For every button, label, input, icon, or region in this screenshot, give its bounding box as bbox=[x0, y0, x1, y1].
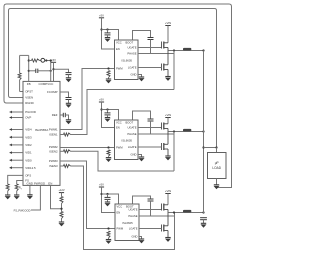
wire bbox=[150, 121, 152, 134]
svg-text:FCOMP: FCOMP bbox=[47, 90, 58, 94]
svg-text:PWM: PWM bbox=[116, 146, 123, 150]
svg-text:FB: FB bbox=[27, 82, 31, 86]
ground bbox=[66, 119, 71, 121]
svg-text:VSEN: VSEN bbox=[25, 96, 33, 100]
wire +5V feed / EN tie driver 3 bbox=[102, 187, 116, 213]
wire LGATE driver 3 bbox=[139, 228, 162, 230]
svg-text:LGATE: LGATE bbox=[129, 227, 138, 231]
svg-text:VID12.5: VID12.5 bbox=[25, 166, 36, 170]
svg-text:BOOT: BOOT bbox=[126, 41, 134, 45]
svg-text:VID2: VID2 bbox=[25, 143, 32, 147]
svg-text:GND: GND bbox=[132, 235, 138, 239]
svg-text:+VIN: +VIN bbox=[165, 189, 171, 193]
svg-text:UGATE: UGATE bbox=[127, 126, 136, 130]
svg-text:ISL6605: ISL6605 bbox=[122, 221, 133, 225]
wire GND pin bbox=[29, 185, 31, 194]
wire PGOOD output bbox=[10, 111, 24, 113]
wire ISEN2 a bbox=[60, 150, 64, 152]
ground (low-side source 1) bbox=[165, 76, 170, 78]
wire bbox=[7, 191, 9, 195]
svg-text:VID1: VID1 bbox=[25, 151, 32, 155]
resistor R-PWM2 pulldown bbox=[107, 150, 110, 156]
driver U2 ISL6605 box bbox=[115, 40, 139, 80]
wire FB rail bbox=[28, 55, 30, 81]
ground bbox=[5, 194, 10, 196]
resistor R-OFST bbox=[18, 73, 21, 80]
svg-text:COMP: COMP bbox=[39, 82, 48, 86]
svg-text:+5V: +5V bbox=[51, 58, 56, 62]
wire UGATE driver 2 bbox=[138, 127, 162, 129]
svg-text:GND: GND bbox=[27, 182, 33, 186]
svg-text:ISEN2: ISEN2 bbox=[49, 149, 58, 153]
ground bbox=[66, 77, 71, 79]
svg-text:VCC: VCC bbox=[47, 82, 53, 86]
inductor L1 bbox=[183, 48, 191, 51]
wire bbox=[107, 199, 109, 202]
wire VID2 input bbox=[10, 144, 24, 146]
wire phase node line bbox=[168, 50, 204, 52]
ground bbox=[27, 194, 32, 196]
wire VID12.5 input bbox=[10, 167, 24, 169]
wire ISEN1 a bbox=[60, 134, 64, 136]
wire RGND remote sense loop (outer) bbox=[4, 4, 232, 188]
wire PWM1 bbox=[60, 69, 115, 130]
wire VCC stub bbox=[53, 62, 55, 81]
wire VID3 input bbox=[10, 136, 24, 138]
svg-text:+5V: +5V bbox=[99, 183, 104, 187]
wire bbox=[45, 60, 51, 62]
wire BOOT driver 1 bbox=[133, 31, 151, 41]
wire cap branch driver 3 bbox=[107, 194, 109, 197]
resistor RC bbox=[32, 59, 40, 62]
svg-text:VID0: VID0 bbox=[25, 158, 32, 162]
svg-text:VCC: VCC bbox=[116, 121, 122, 125]
wire OFST drop with resistor bbox=[19, 55, 21, 73]
svg-text:REF: REF bbox=[52, 113, 58, 117]
capacitor CC (round) bbox=[41, 58, 45, 62]
svg-text:ISL6565A: ISL6565A bbox=[35, 128, 50, 132]
transistor Q3 high-side bbox=[161, 123, 163, 130]
transistor Q6 low-side bbox=[161, 225, 163, 232]
wire +5V feed / EN tie driver 2 bbox=[102, 102, 115, 128]
svg-text:UGATE: UGATE bbox=[128, 208, 137, 212]
transistor Q2 low-side bbox=[161, 64, 163, 71]
ground bbox=[105, 201, 110, 203]
svg-text:BOOT: BOOT bbox=[126, 121, 134, 125]
resistor R-OFS bbox=[6, 184, 9, 191]
wire bbox=[150, 40, 152, 54]
svg-text:EN: EN bbox=[116, 126, 120, 130]
svg-text:PGOOD: PGOOD bbox=[25, 110, 36, 114]
wire phase 1 vertical bbox=[173, 51, 175, 90]
wire phase node line bbox=[168, 131, 204, 133]
capacitor C-OUT bbox=[200, 217, 207, 219]
ground bbox=[139, 156, 144, 158]
ground bbox=[14, 194, 19, 196]
resistor R-EN-upper bbox=[60, 197, 63, 204]
wire VIN drop bbox=[167, 118, 169, 124]
wire PHASE driver 2 bbox=[138, 133, 174, 135]
svg-text:+5V: +5V bbox=[99, 13, 104, 17]
wire bbox=[65, 115, 68, 120]
svg-text:OFS: OFS bbox=[25, 174, 31, 178]
controller U1 ISL6565A box bbox=[23, 81, 60, 185]
wire bbox=[108, 238, 110, 240]
transistor Q5 high-side bbox=[161, 204, 163, 211]
capacitor C-VCC driver 3 bbox=[105, 196, 111, 198]
ground (load) bbox=[214, 184, 219, 186]
capacitor CF bbox=[35, 69, 37, 73]
svg-text:GND: GND bbox=[131, 73, 137, 77]
wire ISEN3 a bbox=[60, 165, 64, 167]
wire bbox=[107, 35, 109, 38]
svg-text:GND: GND bbox=[131, 153, 137, 157]
ground (low-side source 2) bbox=[165, 155, 170, 157]
resistor RT bbox=[15, 184, 18, 191]
wire bbox=[68, 75, 70, 78]
wire ISEN1 b bbox=[71, 90, 175, 135]
wire comp row upper bbox=[29, 60, 32, 62]
capacitor C-REF bbox=[62, 113, 64, 117]
svg-text:+5V: +5V bbox=[99, 98, 104, 102]
capacitor C-VCC driver 1 bbox=[105, 32, 111, 34]
wire LGATE driver 2 bbox=[138, 146, 162, 148]
svg-text:PWM: PWM bbox=[117, 227, 124, 231]
svg-text:PWM1: PWM1 bbox=[49, 128, 58, 132]
capacitor C-VCC controller bbox=[66, 72, 72, 74]
wire bbox=[107, 115, 109, 118]
ground bbox=[105, 117, 110, 119]
wire load top bbox=[204, 147, 217, 149]
wire bbox=[68, 100, 70, 104]
inductor L3 bbox=[183, 210, 191, 213]
svg-text:+12V: +12V bbox=[58, 188, 65, 192]
wire VCC driver 3 bbox=[102, 194, 119, 204]
wire VID0 input bbox=[10, 159, 24, 161]
wire PHASE driver 1 bbox=[138, 53, 174, 55]
svg-text:µP: µP bbox=[215, 161, 219, 165]
wire VCC decoupling branch bbox=[54, 69, 69, 72]
inductor L2 bbox=[183, 129, 191, 132]
wire load stub bbox=[216, 148, 218, 153]
capacitor C-VCC driver 2 bbox=[105, 112, 111, 114]
ground (low-side source 3) bbox=[165, 237, 170, 239]
transistor Q1 high-side bbox=[161, 42, 163, 49]
capacitor C-BOOT driver 3 bbox=[148, 198, 154, 200]
svg-text:PWM: PWM bbox=[116, 67, 123, 71]
wire GND driver 3 bbox=[139, 237, 142, 240]
wire GND driver 1 bbox=[138, 75, 142, 78]
svg-text:EN: EN bbox=[117, 211, 121, 215]
svg-text:VID4: VID4 bbox=[25, 128, 32, 132]
wire PWRGD net bbox=[31, 185, 40, 210]
wire bbox=[108, 78, 110, 80]
transistor Q4 low-side bbox=[161, 143, 163, 150]
wire FCOMP pin bbox=[60, 92, 69, 98]
load block uP LOAD bbox=[208, 153, 227, 179]
wire COMP rail bbox=[50, 61, 52, 82]
wire BOOT driver 3 bbox=[133, 196, 151, 204]
resistor R-PWM3 pulldown bbox=[107, 231, 110, 238]
wire VOUT rail bbox=[203, 51, 205, 214]
wire bbox=[203, 220, 205, 224]
wire VIN drop bbox=[167, 194, 169, 205]
wire bbox=[61, 219, 63, 223]
wire EN pin bbox=[51, 185, 62, 208]
wire UGATE driver 1 bbox=[138, 47, 162, 49]
svg-text:VCC: VCC bbox=[116, 41, 122, 45]
svg-text:PHASE: PHASE bbox=[128, 214, 137, 218]
wire bbox=[61, 193, 63, 197]
svg-text:LOAD: LOAD bbox=[212, 166, 221, 170]
wire bbox=[108, 156, 110, 157]
wire REF pin bbox=[60, 114, 63, 116]
ground (output cap) bbox=[201, 222, 206, 224]
ground bbox=[139, 238, 144, 240]
resistor R-PWM1 pulldown bbox=[107, 71, 110, 78]
wire bbox=[40, 60, 41, 62]
ground bbox=[59, 221, 64, 223]
resistor R-ISEN3 bbox=[64, 165, 71, 168]
wire OFS pin bbox=[8, 175, 23, 184]
wire bbox=[38, 70, 51, 72]
ground bbox=[139, 76, 144, 78]
svg-text:+VIN: +VIN bbox=[165, 21, 171, 25]
svg-text:+VIN: +VIN bbox=[165, 113, 171, 117]
wire BOOT driver 2 bbox=[133, 111, 151, 120]
wire comp row lower bbox=[29, 70, 36, 72]
wire bbox=[16, 191, 18, 195]
svg-text:FS_PWGOOD: FS_PWGOOD bbox=[14, 208, 31, 212]
wire VCC driver 2 bbox=[102, 110, 119, 121]
wire PWM2 bbox=[60, 147, 115, 149]
resistor R-EN-lower bbox=[60, 212, 63, 219]
driver U4 ISL6605 box bbox=[115, 204, 139, 241]
wire ISEN2 b bbox=[71, 151, 175, 171]
wire phase 2 vertical bbox=[173, 132, 175, 172]
wire OVP output bbox=[10, 117, 24, 119]
wire UGATE driver 3 bbox=[139, 209, 162, 211]
svg-text:EN: EN bbox=[48, 182, 52, 186]
resistor R-ISEN2 bbox=[64, 150, 71, 153]
svg-text:UGATE: UGATE bbox=[127, 46, 136, 50]
wire VIN drop bbox=[167, 26, 169, 43]
svg-text:VCC: VCC bbox=[117, 205, 123, 209]
svg-text:OVP: OVP bbox=[25, 116, 31, 120]
wire GND driver 2 bbox=[138, 155, 142, 158]
svg-text:ISEN1: ISEN1 bbox=[49, 133, 58, 137]
ground bbox=[105, 37, 110, 39]
capacitor C-FCOMP bbox=[66, 97, 72, 99]
ground bbox=[106, 78, 111, 80]
capacitor C-BOOT driver 2 bbox=[148, 118, 154, 120]
svg-text:LGATE: LGATE bbox=[128, 66, 137, 70]
svg-text:RGND: RGND bbox=[25, 101, 34, 105]
wire PWM3 bbox=[60, 161, 115, 229]
wire +5V feed / EN tie driver 1 bbox=[102, 18, 115, 49]
driver U3 ISL6605 box bbox=[115, 120, 139, 160]
wire ISEN3 b bbox=[71, 166, 175, 250]
ground bbox=[106, 157, 111, 159]
svg-text:VID3: VID3 bbox=[25, 135, 32, 139]
svg-text:PWM3: PWM3 bbox=[49, 159, 58, 163]
wire VSEN remote sense loop (inner) bbox=[9, 9, 217, 148]
wire FS pin bbox=[17, 181, 23, 185]
wire PHASE driver 3 bbox=[139, 215, 174, 217]
svg-text:EN: EN bbox=[116, 47, 120, 51]
wire bbox=[150, 201, 152, 216]
svg-text:ISEN3: ISEN3 bbox=[49, 164, 58, 168]
wire VCC driver 1 bbox=[102, 30, 119, 41]
wire cap branch driver 1 bbox=[107, 30, 109, 33]
wire comp top link bbox=[20, 54, 29, 56]
wire cap branch driver 2 bbox=[107, 110, 109, 113]
svg-text:PWRGD: PWRGD bbox=[34, 182, 45, 186]
wire phase node line bbox=[168, 212, 204, 214]
svg-text:OFST: OFST bbox=[25, 90, 33, 94]
ground bbox=[66, 102, 71, 104]
resistor R-ISEN1 bbox=[64, 133, 71, 136]
svg-text:PHASE: PHASE bbox=[127, 132, 136, 136]
wire load gnd stub bbox=[216, 179, 218, 185]
capacitor C-BOOT driver 1 bbox=[148, 37, 154, 39]
wire VID1 input bbox=[10, 152, 24, 154]
ground bbox=[106, 239, 111, 241]
svg-text:LGATE: LGATE bbox=[128, 145, 137, 149]
wire LGATE driver 1 bbox=[138, 67, 162, 69]
svg-text:ISL6605: ISL6605 bbox=[122, 138, 133, 142]
wire VID4 input bbox=[10, 129, 24, 131]
svg-text:PHASE: PHASE bbox=[127, 52, 136, 56]
svg-text:ISL6605: ISL6605 bbox=[122, 58, 133, 62]
